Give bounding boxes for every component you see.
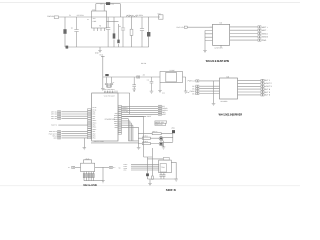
svg-text:MOT +: MOT + — [262, 26, 269, 29]
svg-text:IN 4: IN 4 — [192, 92, 195, 95]
svg-text:NRST: NRST — [162, 113, 167, 116]
svg-text:WH-12V-2.54JST-4PIN: WH-12V-2.54JST-4PIN — [206, 59, 229, 63]
svg-text:OUT 6: OUT 6 — [264, 94, 271, 97]
svg-text:STM32F103: STM32F103 — [105, 118, 115, 121]
svg-text:MOT -: MOT - — [262, 29, 268, 32]
svg-text:OUT 1: OUT 1 — [264, 79, 271, 82]
svg-text:OUT 5: OUT 5 — [264, 91, 271, 94]
svg-text:mOUT 3: mOUT 3 — [264, 85, 272, 88]
svg-text:L1 33uH: L1 33uH — [126, 14, 133, 17]
svg-text:LED 12V: LED 12V — [155, 123, 163, 126]
svg-text:PWR-IN: PWR-IN — [47, 15, 54, 18]
svg-text:D3 SS34: D3 SS34 — [136, 14, 143, 17]
svg-text:Micro-USB: Micro-USB — [83, 183, 96, 187]
svg-text:OUT 4: OUT 4 — [264, 88, 271, 91]
svg-text:PWR 12V: PWR 12V — [188, 80, 197, 83]
svg-text:BOOT0 100K: BOOT0 100K — [94, 140, 105, 143]
svg-text:WH-12V(2.54)DRIVER: WH-12V(2.54)DRIVER — [219, 113, 243, 117]
svg-text:SEN B: SEN B — [262, 36, 269, 39]
svg-text:F1: F1 — [69, 14, 71, 17]
svg-text:PWR 12V: PWR 12V — [177, 26, 185, 29]
svg-text:mOUT 2: mOUT 2 — [264, 82, 272, 85]
svg-text:SEN A: SEN A — [262, 32, 269, 35]
svg-text:D2 SS34: D2 SS34 — [77, 14, 84, 17]
svg-text:GND: GND — [262, 39, 267, 42]
svg-text:SDIF B: SDIF B — [166, 188, 176, 192]
